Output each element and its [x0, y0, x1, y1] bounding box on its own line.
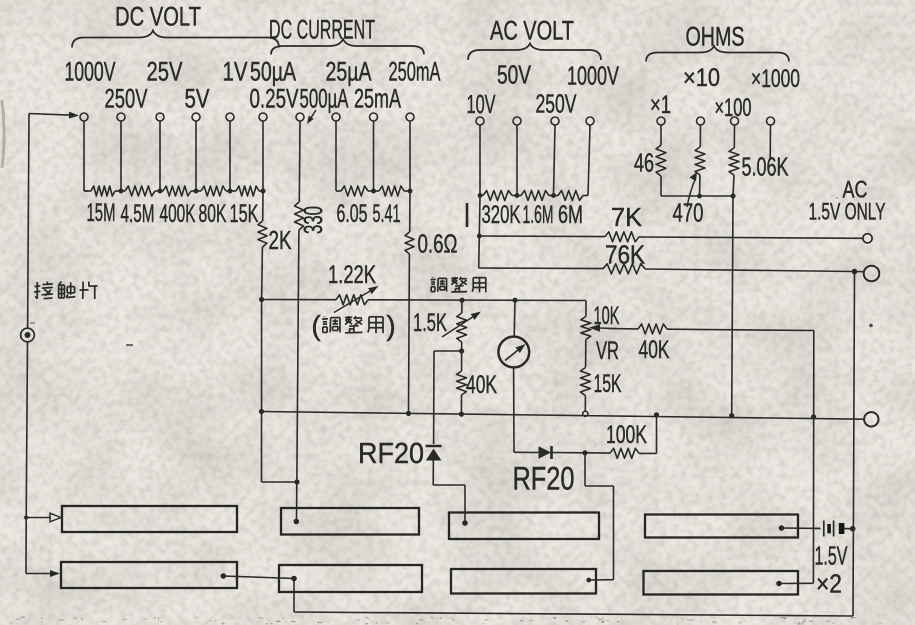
- potentiometer 1.22K: [336, 295, 368, 305]
- node 25V chain: [158, 189, 163, 194]
- svg-text:DC CURRENT: DC CURRENT: [269, 15, 375, 45]
- node 2K bottom corner: [262, 481, 298, 483]
- svg-text:DC VOLT: DC VOLT: [115, 1, 201, 31]
- node 250V chain: [551, 193, 556, 198]
- wire x1000 stub: [769, 125, 771, 158]
- node 76K output: [852, 269, 858, 275]
- diode RF20 #2: [514, 451, 539, 453]
- node 330 into switch bar B1: [294, 519, 300, 525]
- terminal 1V: [226, 113, 234, 121]
- meter M1: [498, 337, 529, 368]
- wire 25uA stem: [335, 121, 337, 191]
- node into switch bar C2: [586, 578, 591, 583]
- wire 25V stem: [159, 121, 161, 191]
- wire bottom rail: [294, 612, 853, 616]
- resistor 1.6M: [517, 195, 521, 197]
- resistor 330: [298, 121, 301, 202]
- terminal x1: [657, 117, 665, 125]
- terminal 10V: [476, 117, 484, 125]
- wire 76K line: [479, 267, 603, 270]
- node into switch bar C1: [462, 520, 468, 526]
- svg-text:330: 330: [298, 206, 328, 234]
- node bus 100K: [655, 413, 659, 417]
- paper mark left edge: [2, 100, 4, 168]
- wire 5V stem: [195, 121, 197, 191]
- svg-text:15K: 15K: [594, 370, 622, 398]
- wire meter top stem: [513, 300, 516, 336]
- resistor 4.5M: [121, 190, 125, 192]
- terminal output bottom big: [864, 412, 878, 426]
- node 25mA chain: [371, 189, 376, 194]
- svg-text:46: 46: [634, 148, 654, 178]
- wire 250mA stem: [409, 121, 411, 191]
- svg-text:1.6M: 1.6M: [523, 201, 554, 229]
- node 1V chain: [228, 189, 233, 194]
- resistor 15M: [84, 190, 91, 192]
- wire bar A2 to bar B2: [223, 576, 294, 579]
- terminal 25V: [156, 113, 164, 121]
- node 100K on bus: [654, 412, 659, 417]
- node 1.5K bottom: [459, 348, 464, 353]
- potentiometer 10K VR: [581, 317, 591, 340]
- svg-text:1000V: 1000V: [567, 61, 619, 91]
- svg-text:250V: 250V: [536, 89, 577, 119]
- svg-text:): ): [386, 310, 395, 341]
- wire left rail lower: [26, 342, 27, 518]
- svg-text:25mA: 25mA: [354, 84, 401, 114]
- svg-text:AC VOLT: AC VOLT: [490, 16, 574, 46]
- terminal 500uA: [296, 113, 304, 121]
- pot 1.22K wiper arrow: [334, 291, 370, 312]
- svg-text:40K: 40K: [466, 371, 497, 399]
- resistor 5.41: [374, 190, 380, 192]
- svg-text:5.06K: 5.06K: [742, 152, 789, 182]
- resistor 470: [699, 125, 701, 147]
- selector arrow into switch bar A2: [26, 573, 50, 575]
- wire 1000V stem: [83, 121, 85, 191]
- svg-text:1.22K: 1.22K: [328, 261, 376, 289]
- wire 0.25V stem: [262, 121, 264, 191]
- resistor 40K vertical: [461, 351, 463, 371]
- terminal 250mA: [406, 113, 414, 121]
- svg-text:1.5V ONLY: 1.5V ONLY: [809, 198, 886, 225]
- wire battery rail vertical: [853, 272, 855, 617]
- wire 25mA stem: [373, 121, 375, 191]
- wire diode1 down: [432, 461, 434, 486]
- svg-text:40K: 40K: [639, 336, 670, 364]
- label 調整用 top: [432, 276, 434, 279]
- svg-text:15K: 15K: [230, 200, 259, 228]
- svg-text:×10: ×10: [683, 64, 720, 92]
- resistor 6.05: [336, 190, 341, 192]
- label 500uA pointer arrow: [311, 110, 316, 117]
- terminal x10: [697, 117, 705, 125]
- node 15K bottom on bus: [583, 411, 588, 416]
- wire 250V stem: [120, 121, 122, 191]
- switch bar D2: [644, 571, 799, 595]
- stray mark vertical tick: [466, 203, 469, 227]
- svg-text:76K: 76K: [605, 240, 646, 270]
- svg-text:400K: 400K: [160, 200, 196, 228]
- terminal output top big: [864, 266, 880, 282]
- svg-text:RF20: RF20: [513, 461, 575, 497]
- wire 2K line down: [261, 300, 263, 483]
- svg-text:6.05: 6.05: [337, 200, 368, 228]
- node 5V chain: [194, 189, 199, 194]
- switch bar A2: [61, 562, 237, 588]
- node bar A2 right: [221, 573, 227, 579]
- terminal 25uA: [332, 113, 340, 121]
- terminal AC 1.5V small: [863, 234, 872, 243]
- terminal 250V AC: [551, 117, 559, 125]
- svg-text:7K: 7K: [611, 202, 643, 232]
- battery 1.5V x2: [782, 527, 821, 529]
- svg-text:5V: 5V: [185, 84, 210, 114]
- label 470 pointer arrow: [687, 177, 696, 207]
- node meter top: [512, 298, 517, 303]
- terminal 1000V AC: [586, 117, 594, 125]
- node 470 rail: [697, 194, 702, 199]
- svg-text:320K: 320K: [482, 201, 521, 229]
- svg-text:15M: 15M: [87, 199, 116, 227]
- svg-text:0.25V: 0.25V: [250, 84, 299, 114]
- wire 7K line: [479, 235, 605, 238]
- wire 50V stem: [516, 125, 518, 196]
- svg-text:4.5M: 4.5M: [121, 200, 155, 228]
- node bar D1 battery: [779, 525, 785, 531]
- node 250mA chain: [408, 189, 413, 194]
- terminal 250V: [117, 113, 125, 121]
- svg-text:100K: 100K: [606, 421, 647, 449]
- potentiometer 1.5K: [461, 300, 463, 313]
- node 0.25V chain: [261, 189, 266, 194]
- terminal 50V: [513, 117, 521, 125]
- diode RF20 #1: [426, 445, 442, 448]
- node 1.5K top: [459, 298, 464, 303]
- switch bar D1: [645, 515, 798, 538]
- wire 1.5K junction left branch: [434, 350, 462, 352]
- node bus 40K: [459, 412, 464, 417]
- wire main bus: [262, 412, 864, 420]
- node bar B2 left: [291, 576, 297, 582]
- resistor 15K VR chain: [580, 368, 590, 396]
- svg-text:25µA: 25µA: [326, 57, 372, 87]
- node bus left end: [259, 409, 264, 414]
- svg-text:0.6Ω: 0.6Ω: [418, 229, 458, 259]
- pot 1.5K wiper arrow: [442, 317, 473, 337]
- resistor 0.6 ohm: [409, 191, 411, 232]
- svg-text:80K: 80K: [199, 200, 227, 228]
- wire ohms rail: [661, 195, 733, 197]
- wire 1V stem: [229, 121, 231, 191]
- wire 1000V AC stem: [588, 125, 590, 196]
- terminal x1000: [767, 117, 775, 125]
- svg-text:1.5V: 1.5V: [815, 541, 848, 571]
- wire ohms rail down to bus: [732, 196, 733, 416]
- svg-text:25V: 25V: [147, 57, 183, 87]
- svg-text:VR: VR: [596, 337, 619, 365]
- brace AC VOLT: [468, 44, 601, 61]
- node 40K leg on bus: [811, 414, 816, 419]
- svg-text:×2: ×2: [816, 569, 842, 599]
- svg-text:5.41: 5.41: [373, 200, 401, 228]
- svg-text:250V: 250V: [105, 84, 148, 114]
- wire top-left input to 1000V terminal: [29, 114, 69, 116]
- resistor 400K: [160, 190, 163, 192]
- resistor 6M: [554, 195, 559, 197]
- switch bar C2: [451, 569, 596, 594]
- terminal 5V: [192, 113, 200, 121]
- svg-text:500µA: 500µA: [300, 84, 349, 114]
- contact terminal 接触片 double circle: [21, 328, 35, 342]
- svg-text:2K: 2K: [269, 225, 292, 255]
- switch bar B2: [279, 565, 422, 592]
- resistor 100K: [585, 452, 610, 454]
- selector arrow into switch bar A1: [24, 515, 28, 519]
- wire AC chain down to 7K line: [478, 196, 481, 237]
- svg-text:×100: ×100: [715, 94, 752, 122]
- resistor 2K: [262, 191, 264, 221]
- terminal 0.25V: [259, 113, 267, 121]
- node bus 0.6ohm: [406, 411, 411, 416]
- label 接触片: [36, 282, 38, 299]
- node 250V chain: [119, 189, 124, 194]
- resistor 5.06K: [733, 125, 735, 148]
- svg-text:6M: 6M: [558, 201, 583, 229]
- svg-text:(: (: [311, 310, 321, 341]
- node 10V chain: [478, 193, 483, 198]
- scan edge speckles bottom: [9, 617, 882, 625]
- resistor 15K: [230, 190, 236, 192]
- svg-text:1000V: 1000V: [65, 57, 116, 87]
- svg-text:250mA: 250mA: [389, 57, 441, 87]
- wire 40K down leg: [812, 331, 814, 584]
- svg-text:×1: ×1: [650, 91, 671, 119]
- node diode2 right: [582, 450, 587, 455]
- svg-text:1V: 1V: [223, 57, 248, 87]
- node bus ohms leg: [729, 413, 734, 418]
- brace DC CURRENT: [271, 39, 424, 55]
- node 50V chain: [515, 193, 520, 198]
- wire diode2 to bar C2: [584, 453, 586, 486]
- node battery to rail: [850, 526, 856, 532]
- svg-text:×1000: ×1000: [751, 65, 800, 93]
- wire 40K leg to bar D2: [779, 582, 813, 584]
- svg-text:1.5K: 1.5K: [413, 309, 447, 337]
- terminal x100: [731, 117, 739, 125]
- svg-text:50µA: 50µA: [250, 57, 296, 87]
- wire 250V AC stem: [554, 125, 556, 196]
- wire 10V stem: [479, 125, 481, 196]
- wire meter bottom stem: [513, 368, 515, 453]
- paper mark small dash: [126, 344, 133, 346]
- svg-text:50V: 50V: [497, 60, 531, 90]
- node 5.06K rail: [730, 193, 735, 198]
- switch bar B1: [281, 508, 419, 535]
- node bar D2 right: [776, 581, 782, 587]
- brace DC VOLT: [72, 31, 279, 48]
- switch bar C1: [449, 513, 599, 540]
- resistor 80K: [196, 190, 201, 192]
- svg-text:10V: 10V: [467, 89, 496, 119]
- resistor 40K horizontal: [600, 327, 616, 330]
- node 7K line left: [477, 234, 482, 239]
- terminal 25mA: [370, 113, 378, 121]
- resistor 46: [660, 125, 662, 145]
- node meter feed left: [259, 297, 264, 302]
- terminal 1000V: [80, 113, 88, 121]
- resistor 320K: [480, 195, 483, 197]
- wire left vertical rail: [28, 114, 29, 329]
- paper speck top right: [869, 324, 873, 328]
- wire meter feed line: [262, 299, 336, 301]
- svg-text:RF20: RF20: [358, 438, 424, 470]
- switch bar A1: [62, 506, 237, 532]
- wire VR feed corner: [585, 301, 587, 317]
- brace OHMS: [646, 46, 789, 62]
